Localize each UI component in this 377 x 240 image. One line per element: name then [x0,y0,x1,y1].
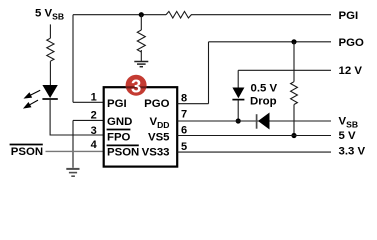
svg-text:PGI: PGI [107,98,127,110]
wire GND pin down to ground [72,120,74,167]
ground for pulldown resistor [134,62,148,67]
resistor R4 PGO pullup to 5V [291,82,298,105]
diode D3 VSB feed to VDD [256,114,258,129]
svg-text:0.5 V: 0.5 V [251,82,278,94]
svg-text:PSON: PSON [11,146,43,158]
svg-text:6: 6 [181,125,187,137]
svg-text:FPO: FPO [107,131,131,143]
wire pullup resistor top lead [293,42,295,82]
svg-text:PGO: PGO [339,37,364,49]
svg-text:3: 3 [91,125,97,137]
wire 5V rail to pin 6 [177,135,331,137]
svg-text:PGI: PGI [339,10,359,22]
wire PGO rail [209,41,332,43]
callout marker 3 red circle [126,75,147,96]
wire LED cathode to pin 3 FPO [50,99,104,135]
node junction on 5V rail [291,133,296,138]
svg-text:VS5: VS5 [148,131,170,143]
resistor R1 series in PGI line [166,11,191,18]
svg-text:PGO: PGO [144,98,169,110]
IC U1 power supervisor box [104,87,178,166]
resistor R2 pulldown [137,30,145,52]
svg-text:2: 2 [91,109,97,121]
wire PSON to pin 4 [46,150,104,152]
LED D1 [42,85,57,98]
wire 12V down to diode D2 [237,70,239,87]
wire 5VSB to resistor R3 [49,24,51,38]
svg-text:5 V: 5 V [339,130,356,142]
svg-text:Drop: Drop [250,95,277,107]
wire PGI top rail [73,14,331,16]
wire pin 8 PGO stub [177,103,208,105]
wire vertical from PGI rail to pin 1 [72,15,74,103]
resistor R3 LED current limit [47,38,54,61]
svg-text:8: 8 [181,92,187,104]
svg-text:12 V: 12 V [339,65,363,77]
LED light arrow 1 [25,90,40,98]
node junction on PGI rail [139,12,144,17]
svg-text:GND: GND [107,116,132,128]
wire PGO riser [208,42,210,104]
diode D2 12V feed, 0.5V drop [232,88,244,99]
LED light arrow 2 [24,100,38,108]
wire pullup resistor bottom lead [293,105,295,136]
svg-text:VS33: VS33 [142,147,170,159]
wire resistor R3 to LED anode [49,61,51,85]
wire pin 1 stub [73,101,104,103]
wire pin 2 GND stub [73,119,104,121]
ground for GND pin [66,169,79,176]
node junction on VDD node [236,118,241,123]
svg-text:3: 3 [131,75,141,96]
svg-text:4: 4 [91,139,98,151]
svg-text:3.3 V: 3.3 V [339,145,366,157]
wire pin 7 VDD rail to VSB [177,120,331,122]
wire pulldown resistor top lead [140,15,142,61]
wire 12V rail [238,69,331,71]
node junction on PGO rail [291,39,296,44]
svg-text:7: 7 [181,109,187,121]
svg-text:1: 1 [91,91,97,103]
svg-text:PSON: PSON [107,147,139,159]
wire 3.3V rail to pin 5 [177,151,331,153]
svg-text:5: 5 [181,141,187,153]
wire diode D2 cathode to VDD node [237,100,239,121]
